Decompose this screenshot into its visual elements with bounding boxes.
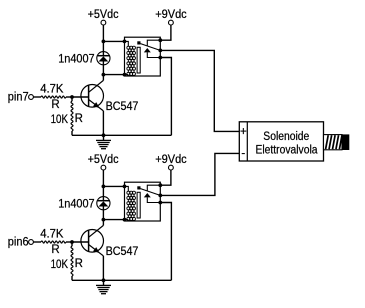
node C1 junction (base / 4.7K / 10K) xyxy=(70,95,74,99)
wire node A2 to relay coil top xyxy=(103,185,124,187)
svg-text:R: R xyxy=(75,258,83,270)
relay K1 box xyxy=(125,37,161,76)
relay K2 pin 9V (right edge top) xyxy=(158,183,162,187)
wire diode anode to node B1 xyxy=(102,62,104,75)
ground symbol (circuit 1) xyxy=(96,135,111,148)
svg-text:1n4007: 1n4007 xyxy=(58,198,94,210)
svg-text:R: R xyxy=(51,244,59,256)
svg-text:BC547: BC547 xyxy=(106,246,139,258)
diode D2 1n4007 flyback xyxy=(97,197,110,210)
wire diode anode to node B2 xyxy=(102,207,104,220)
relay K2 coil terminal pin top xyxy=(123,185,127,189)
relay K2 pin blade output (right edge middle) xyxy=(158,194,162,198)
ground rail wire (circuit 1) xyxy=(72,134,171,136)
wire node A1 to relay coil top xyxy=(103,40,124,42)
node B1 junction (coil bottom / diode anode / collector) xyxy=(102,73,106,77)
svg-text:+9Vdc: +9Vdc xyxy=(155,9,187,21)
ground rail wire (circuit 2) xyxy=(72,279,171,281)
wire relay K1 blade output to solenoid + xyxy=(160,50,239,131)
ground symbol (circuit 2) xyxy=(96,280,111,293)
wire collector Q2 to node B2 xyxy=(102,220,104,226)
relay K1 fixed contact square xyxy=(137,41,140,44)
svg-text:10K: 10K xyxy=(51,259,69,271)
resistor R1b 10K base-emitter xyxy=(71,97,73,101)
wire base Q1 xyxy=(72,96,89,98)
svg-text:pin7: pin7 xyxy=(8,92,29,104)
wire resistor R1a to node C1 xyxy=(66,96,72,98)
+9Vdc supply terminal (circuit 1) xyxy=(169,20,174,25)
wire +9V terminal to relay K2 xyxy=(160,170,171,185)
relay K2 common link wire xyxy=(147,197,160,202)
relay K2 box xyxy=(125,182,161,221)
svg-text:+9Vdc: +9Vdc xyxy=(155,154,187,166)
svg-text:-: - xyxy=(241,148,245,160)
relay K1 armature bar xyxy=(137,47,140,73)
transistor Q1 BC547 xyxy=(81,80,104,111)
wire +5V terminal to node A1 xyxy=(102,25,104,41)
pin7 input terminal xyxy=(29,95,34,100)
node E1 junction (emitter / ground) xyxy=(102,133,106,137)
wire solenoid - to relay K2 blade output xyxy=(160,153,239,195)
relay K1 coil terminal pin bottom xyxy=(123,73,127,77)
node B2 junction (coil bottom / diode anode / collector) xyxy=(102,218,106,222)
relay K2 +9V link to moving contact xyxy=(147,185,160,191)
wire node B2 to relay coil bottom xyxy=(103,219,124,221)
relay K2 coil feed wires xyxy=(125,186,129,191)
solenoid valve body box xyxy=(239,122,323,161)
resistor R2b 10K base-emitter xyxy=(71,242,73,246)
wire +9V terminal to relay K1 xyxy=(160,25,171,40)
svg-text:+5Vdc: +5Vdc xyxy=(88,9,119,21)
svg-text:Solenoide: Solenoide xyxy=(263,131,309,143)
wire relay K2 common to ground rail xyxy=(160,203,171,281)
node C2 junction (base / 4.7K / 10K) xyxy=(70,240,74,244)
diode D1 1n4007 flyback xyxy=(97,52,110,65)
wire resistor R2a to node C2 xyxy=(66,241,72,243)
wire relay K1 common to ground rail xyxy=(160,58,171,136)
relay K1 moving contact arrow xyxy=(144,48,151,52)
relay K1 pin common (right edge bottom) xyxy=(158,56,162,60)
transistor Q2 BC547 xyxy=(81,225,104,256)
svg-text:BC547: BC547 xyxy=(106,101,139,113)
relay K2 pin common (right edge bottom) xyxy=(158,201,162,205)
relay K2 coil winding xyxy=(127,191,136,220)
wire node A2 down to diode cathode xyxy=(102,186,104,200)
svg-text:Elettrovalvola: Elettrovalvola xyxy=(256,144,319,156)
svg-text:R: R xyxy=(51,99,59,111)
svg-text:+: + xyxy=(240,126,247,138)
relay K1 coil terminal pin top xyxy=(123,40,127,44)
wire collector Q1 to node B1 xyxy=(102,75,104,81)
relay K2 armature bar xyxy=(137,192,140,218)
relay K2 fixed contact square xyxy=(137,186,140,189)
relay K1 coil feed wires xyxy=(125,41,129,46)
relay K1 common link wire xyxy=(147,52,160,57)
wire +5V terminal to node A2 xyxy=(102,170,104,186)
node A2 junction (+5V rail / coil top / diode cathode) xyxy=(102,185,106,189)
relay K2 moving contact arrow xyxy=(144,193,151,197)
svg-text:1n4007: 1n4007 xyxy=(58,53,94,65)
node A1 junction (+5V rail / coil top / diode cathode) xyxy=(102,40,106,44)
relay K1 pin 9V (right edge top) xyxy=(158,38,162,42)
relay K1 switch blade xyxy=(141,44,161,51)
svg-text:R: R xyxy=(75,113,83,125)
wire pin7 terminal to resistor R1a xyxy=(33,96,41,98)
node E2 junction (emitter / ground) xyxy=(102,278,106,282)
wire emitter Q1 down to ground rail xyxy=(102,111,104,135)
solenoid terminal divider xyxy=(246,122,248,161)
+5Vdc supply terminal (circuit 2) xyxy=(101,165,106,170)
relay K1 coil winding xyxy=(127,46,136,75)
wire node A1 down to diode cathode xyxy=(102,41,104,55)
pin6 input terminal xyxy=(29,240,34,245)
valve stem hatched section xyxy=(324,135,343,150)
wire base Q2 xyxy=(72,241,89,243)
wire pin6 terminal to resistor R2a xyxy=(33,241,41,243)
svg-text:4.7K: 4.7K xyxy=(40,83,64,95)
svg-text:pin6: pin6 xyxy=(8,237,29,249)
+9Vdc supply terminal (circuit 2) xyxy=(169,165,174,170)
resistor R1a 4.7K series base xyxy=(41,96,66,98)
relay K1 pin blade output (right edge middle) xyxy=(158,49,162,53)
wire emitter Q2 down to ground rail xyxy=(102,256,104,280)
svg-text:10K: 10K xyxy=(51,114,69,126)
svg-text:+5Vdc: +5Vdc xyxy=(88,154,119,166)
resistor R2a 4.7K series base xyxy=(41,241,66,243)
relay K1 +9V link to moving contact xyxy=(147,40,160,46)
svg-text:4.7K: 4.7K xyxy=(40,228,64,240)
+5Vdc supply terminal (circuit 1) xyxy=(101,20,106,25)
wire node B1 to relay coil bottom xyxy=(103,74,124,76)
relay K2 switch blade xyxy=(141,189,161,196)
valve stem end cap xyxy=(342,134,349,150)
relay K2 coil terminal pin bottom xyxy=(123,218,127,222)
